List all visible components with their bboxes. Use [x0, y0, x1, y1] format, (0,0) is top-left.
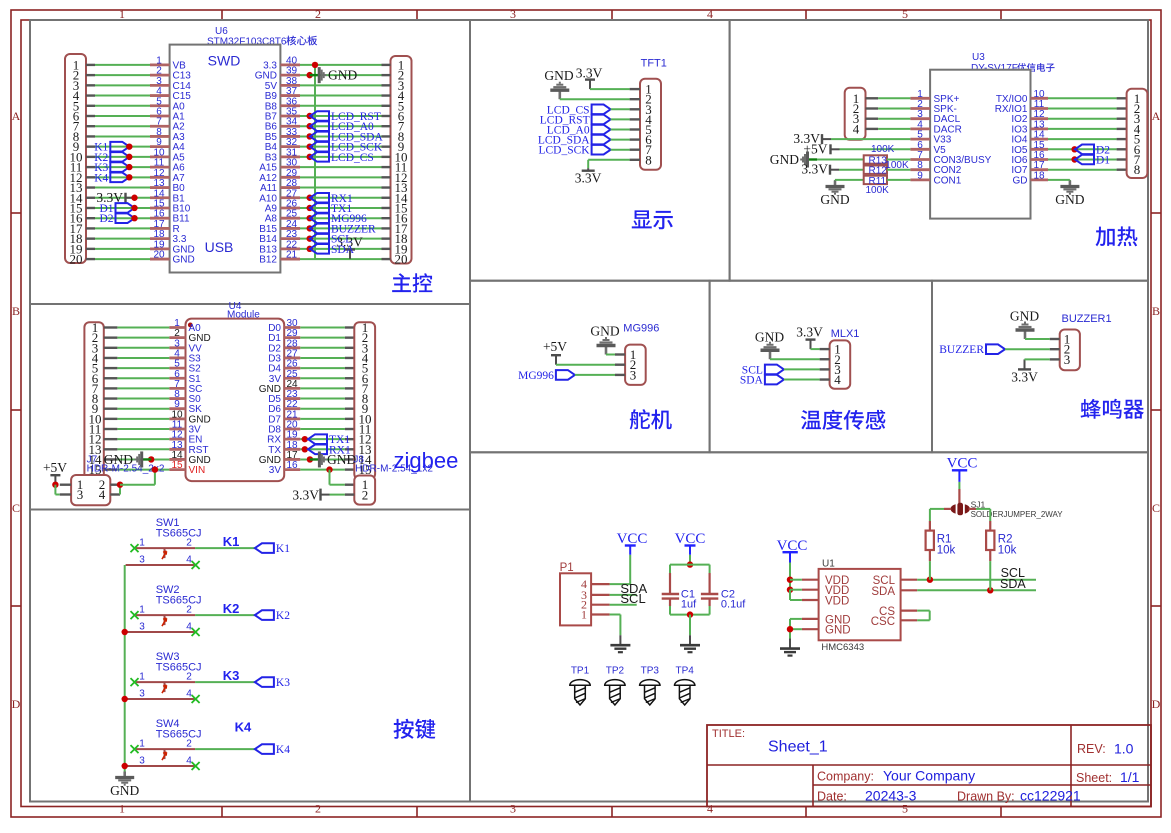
U6 pin 22 (B13) stub + wire [280, 247, 300, 250]
U6 pin 12 (A7) stub + wire [86, 176, 95, 178]
U3 pin 5 (V33) stub [910, 138, 930, 141]
svg-text:MG996: MG996 [623, 323, 659, 335]
wire SW1 pin2 to K1 [195, 547, 255, 549]
U6 pin 14 (B1) stub + wire [86, 197, 95, 199]
net flag LCD_CS [307, 154, 313, 160]
svg-text:1uf: 1uf [681, 599, 697, 611]
wire U3 pin 1 [866, 97, 879, 99]
wire BUZZER1 pin3 [1025, 358, 1050, 360]
wire TFT1 pin 5 [611, 129, 630, 131]
connector header right of U3 [1127, 89, 1148, 178]
net flag D2 at U3 [1071, 146, 1077, 152]
svg-text:1: 1 [139, 538, 145, 549]
svg-text:D1: D1 [1096, 155, 1110, 167]
svg-text:TP4: TP4 [676, 665, 695, 676]
U4 pin 12 (EN) stub + wire [104, 438, 118, 440]
wire TFT1 pin2 [560, 98, 630, 100]
U4 pin 6 (S1) stub + wire [104, 377, 118, 379]
wire SW4 pin2 to K4 [195, 748, 255, 750]
wire U3 pin 16 to header [1048, 159, 1117, 161]
svg-text:K4: K4 [235, 720, 252, 735]
U6 pin 25 (A8) stub + wire [280, 217, 300, 220]
wire TFT1 pin 6 [611, 139, 630, 141]
power flag 3.3V bottom right of U6 [349, 250, 351, 260]
U6 pin 24 (B15) stub + wire [280, 227, 300, 230]
svg-text:4: 4 [834, 372, 841, 387]
TFT1 pin 8 stub [630, 159, 640, 161]
svg-text:1.0: 1.0 [1114, 741, 1134, 757]
svg-text:VDD: VDD [825, 596, 849, 608]
svg-text:4: 4 [853, 121, 860, 136]
wire MLX1 pin2 [770, 358, 820, 360]
TFT1 pin 4 stub [630, 118, 640, 120]
U4 pin 30 (D0) stub + wire [284, 326, 300, 329]
wire U3 pin7 to R13 [817, 159, 864, 161]
svg-text:D: D [1152, 697, 1161, 711]
power flag 3.3V at MLX1 pin1 [810, 340, 812, 350]
svg-text:Sheet_1: Sheet_1 [768, 739, 828, 756]
U4 pin 7 (SC) stub + wire [104, 387, 118, 389]
wire U3 pin 4 [866, 128, 879, 130]
svg-text:P1: P1 [560, 562, 574, 574]
no-connect X marks SW1 [131, 544, 139, 552]
svg-text:1: 1 [139, 605, 145, 616]
svg-text:GND: GND [173, 255, 195, 266]
U3 pin 3 (DACL) stub [910, 117, 930, 120]
power flag 3.3V at U6 pin 14 [126, 197, 135, 199]
net flag K2 at SW2 [255, 610, 274, 620]
U3 pin 12 (IO2) stub [1031, 117, 1049, 120]
svg-text:LCD_SCK: LCD_SCK [538, 145, 590, 157]
border row ticks right [1151, 212, 1161, 214]
svg-text:4: 4 [186, 555, 192, 566]
svg-text:USB: USB [205, 239, 234, 255]
MLX1 pin 3 stub [820, 368, 830, 370]
wire capacitors to ground [670, 614, 710, 616]
U4 pin 26 (D4) stub + wire [284, 367, 300, 370]
net flag SDA at MLX1 [765, 375, 784, 385]
svg-text:TS665CJ: TS665CJ [156, 661, 202, 673]
svg-text:3: 3 [139, 756, 145, 767]
svg-text:SDA: SDA [331, 244, 355, 256]
U6 pin 13 (B0) stub + wire [86, 186, 95, 188]
svg-text:2: 2 [362, 487, 369, 502]
U3 pin 8 (CON2) stub [910, 168, 930, 171]
U4 pin 15 (VIN) stub + wire [104, 468, 118, 470]
net flag K1 at SW1 [255, 543, 274, 553]
net flag K3 at SW3 [255, 677, 274, 687]
wire U3 GD to ground [1048, 179, 1070, 181]
wire MG996 pin3 [575, 374, 615, 376]
resistor R11 100K [864, 176, 887, 184]
svg-text:GND: GND [110, 783, 139, 798]
svg-text:K4: K4 [94, 172, 108, 184]
U3 pin 2 (SPK-) stub [910, 107, 930, 110]
svg-text:3.3V: 3.3V [292, 487, 319, 502]
wire J7 pin2 pin4 to VIN [110, 484, 120, 486]
net flag D2 [116, 213, 135, 223]
ground symbol at U4 pin17 [307, 456, 313, 462]
power flag 3.3V at U3 pin5 V33 [822, 138, 831, 140]
net flag LCD_SCK [307, 143, 313, 149]
svg-text:BUZZER1: BUZZER1 [1062, 313, 1112, 325]
svg-text:GND: GND [327, 452, 356, 467]
U4 pin 17 (GND) stub + wire [284, 458, 300, 461]
svg-text:GND: GND [590, 324, 619, 339]
svg-text:+5V: +5V [43, 460, 67, 475]
svg-text:REV:: REV: [1077, 742, 1106, 756]
connector header left of U6 [65, 54, 86, 263]
U6 pin 28 (A11) stub + wire [280, 186, 300, 189]
TFT1 pin 1 stub [630, 88, 640, 90]
svg-text:TP3: TP3 [641, 665, 660, 676]
svg-text:20243-3: 20243-3 [865, 788, 917, 804]
ground symbol at U4 pin14 [148, 456, 154, 462]
U4 pin 8 (S0) stub + wire [104, 397, 118, 399]
U6 pin 17 (R) stub + wire [86, 227, 95, 229]
MG996 pin 3 stub [615, 374, 625, 376]
svg-text:zigbee: zigbee [394, 448, 459, 473]
svg-text:U6: U6 [215, 26, 228, 37]
U6 pin 33 (B5) stub + wire [280, 135, 300, 138]
ground symbol at MG996 pin1 [605, 346, 608, 355]
svg-text:4: 4 [186, 689, 192, 700]
ground symbol at U3 pin7 [808, 158, 818, 160]
U4 pin 21 (D7) stub + wire [284, 417, 300, 420]
ground symbol at capacitors [689, 635, 691, 645]
U3 pin 17 (IO7) stub [1031, 168, 1049, 171]
connector BUZZER1 [1060, 330, 1080, 371]
wire TFT1 pin 4 [611, 118, 630, 120]
svg-text:TP1: TP1 [571, 665, 590, 676]
svg-text:U1: U1 [822, 559, 835, 570]
svg-text:SDA: SDA [740, 375, 764, 387]
svg-text:1: 1 [139, 672, 145, 683]
section box zigbee [30, 304, 470, 510]
U6 pin 1 (VB) stub + wire [86, 64, 95, 66]
U6 pin 18 (3.3) stub + wire [86, 237, 95, 239]
svg-text:U3: U3 [972, 52, 985, 63]
svg-text:GND: GND [755, 329, 784, 344]
svg-text:SWD: SWD [208, 52, 241, 68]
svg-text:TS665CJ: TS665CJ [156, 527, 202, 539]
wire J7 pin1 pin3 [60, 484, 71, 486]
U6 pin 8 (A3) stub + wire [86, 135, 95, 137]
wire U1 CS to CSC [917, 610, 930, 612]
U6 pin 16 (B11) stub + wire [86, 217, 95, 219]
U4 pin 4 (S3) stub + wire [104, 357, 118, 359]
border column ticks bottom [221, 807, 223, 817]
section box keys [30, 510, 470, 802]
U4 pin 20 (D8) stub + wire [284, 428, 300, 431]
svg-text:GND: GND [825, 625, 851, 637]
net flag RX1 at U6 [307, 195, 313, 201]
power flag 3.3V at U3 pin8 [830, 169, 839, 171]
section box compass [470, 452, 1148, 801]
MG996 pin 2 stub [615, 364, 625, 366]
chip U4 body [186, 319, 285, 482]
wire VCC to capacitors [689, 555, 691, 565]
svg-text:20: 20 [395, 252, 408, 267]
svg-text:D: D [12, 697, 21, 711]
net flag K3 [110, 162, 129, 172]
TFT1 pin 7 stub [630, 148, 640, 150]
net flag SCL at U6 [307, 235, 313, 241]
ground symbol at MLX1 pin2 [769, 350, 772, 359]
U6 pin 6 (A1) stub + wire [86, 115, 95, 117]
U3 pin 13 (IO3) stub [1031, 127, 1049, 130]
wire VCC to U1 VDD [789, 563, 791, 601]
svg-text:GND: GND [1055, 192, 1084, 207]
svg-text:4: 4 [186, 756, 192, 767]
wire SDA net [917, 589, 1036, 591]
svg-text:3.3V: 3.3V [1011, 370, 1038, 385]
net flag LCD_SDA at TFT1 [592, 135, 611, 145]
U3 pin 15 (IO5) stub [1031, 148, 1049, 151]
svg-text:3.3V: 3.3V [796, 324, 823, 339]
wire P1 pin2 [610, 604, 637, 606]
no-connect X marks SW3 [131, 678, 139, 686]
chip U6 body [170, 45, 281, 273]
svg-text:2: 2 [186, 605, 192, 616]
net flag TX1 at U4 RX [302, 436, 308, 442]
connector TFT1 [640, 79, 661, 170]
svg-text:4: 4 [707, 802, 713, 816]
svg-text:5: 5 [902, 802, 908, 816]
wire VCC to P1 pin4 [629, 555, 631, 584]
svg-text:VIN: VIN [189, 465, 206, 476]
svg-text:SDA: SDA [871, 586, 895, 598]
resistor R1 10k [926, 531, 934, 550]
svg-text:3.3V: 3.3V [576, 66, 603, 81]
U6 pin 10 (A5) stub + wire [86, 156, 95, 158]
section box temperature [710, 281, 932, 453]
U3 pin 9 (CON1) stub [910, 178, 930, 181]
svg-text:GND: GND [820, 192, 849, 207]
svg-text:8: 8 [645, 152, 652, 167]
svg-text:TS665CJ: TS665CJ [156, 728, 202, 740]
ground symbol at U3 GD [1069, 181, 1072, 187]
section box main-control [30, 20, 470, 304]
svg-text:2: 2 [186, 538, 192, 549]
U6 pin 19 (GND) stub + wire [86, 248, 95, 250]
wire U4 pin16 3V to J8 pin1 [326, 466, 332, 472]
net flag LCD_CS at TFT1 [592, 105, 611, 115]
MLX1 pin 4 stub [820, 378, 830, 380]
svg-text:2: 2 [186, 739, 192, 750]
U4 pin 10 (GND) stub + wire [104, 418, 118, 420]
svg-text:10k: 10k [937, 545, 956, 557]
svg-text:MLX1: MLX1 [831, 328, 860, 340]
U4 pin 9 (SK) stub + wire [104, 408, 118, 410]
svg-text:21: 21 [286, 250, 298, 261]
wire MG996 pin2 [556, 364, 615, 366]
svg-text:Company:: Company: [817, 770, 874, 784]
section box heating [730, 20, 1148, 281]
U4 pin 16 (3V) stub + wire [284, 468, 300, 471]
svg-text:Your Company: Your Company [883, 768, 975, 784]
svg-text:SOLDERJUMPER_2WAY: SOLDERJUMPER_2WAY [971, 510, 1064, 519]
svg-text:10k: 10k [998, 545, 1017, 557]
wire BUZZER1 pin2 [1005, 348, 1050, 350]
section label keys [394, 719, 436, 739]
U6 pin 40 (3.3) stub + wire [280, 64, 300, 67]
power flag 3.3V at BUZZER1 pin3 [1024, 359, 1026, 369]
U6 pin 5 (A0) stub + wire [86, 105, 95, 107]
svg-text:GND: GND [544, 68, 573, 83]
power flag +5V at MG996 pin2 [555, 355, 557, 365]
U4 pin 29 (D1) stub + wire [284, 336, 300, 339]
capacitor C2 0.1uf [709, 565, 711, 573]
svg-text:TITLE:: TITLE: [712, 728, 745, 740]
U6 pin 11 (A6) stub + wire [86, 166, 95, 168]
U4 pin 27 (D3) stub + wire [284, 357, 300, 360]
svg-text:0.1uf: 0.1uf [721, 599, 746, 611]
svg-text:3: 3 [139, 622, 145, 633]
svg-text:K2: K2 [223, 601, 240, 616]
svg-text:4: 4 [707, 7, 713, 21]
svg-text:100K: 100K [866, 185, 890, 196]
net flag D1 [116, 203, 135, 213]
wire TFT1 pin 3 [611, 108, 630, 110]
svg-text:1/1: 1/1 [1120, 769, 1140, 785]
net flag LCD_SCK at TFT1 [592, 145, 611, 155]
U4 pin 1 (A0) stub + wire [104, 326, 118, 328]
U6 pin 15 (B10) stub + wire [86, 207, 95, 209]
svg-text:1: 1 [139, 739, 145, 750]
capacitor C1 1uf [669, 565, 671, 573]
U6 pin 7 (A2) stub + wire [86, 125, 95, 127]
net flag K1 [110, 142, 129, 152]
wire U3 pin 15 to header [1048, 148, 1117, 150]
TFT1 pin 6 stub [630, 138, 640, 140]
svg-text:K1: K1 [223, 534, 240, 549]
net flag TX1 at U6 [307, 205, 313, 211]
svg-text:Sheet:: Sheet: [1076, 771, 1112, 785]
U6 pin 30 (A15) stub + wire [280, 166, 300, 169]
svg-text:15: 15 [171, 460, 183, 471]
wire U3 pin 13 to header [1048, 128, 1117, 130]
svg-text:2: 2 [186, 672, 192, 683]
wire U3 pin6 [840, 148, 911, 150]
svg-text:3: 3 [510, 802, 516, 816]
ground symbol at TFT1 pin2 [558, 90, 561, 99]
U3 pin 11 (RX/IO1) stub [1031, 107, 1049, 110]
wire VCC to SJ1 [958, 482, 960, 489]
svg-text:MG996: MG996 [518, 370, 554, 382]
BUZZER1 pin 3 stub [1050, 358, 1060, 360]
wire P1 pin3 [610, 594, 637, 596]
svg-text:GD: GD [1013, 175, 1028, 186]
wire SJ1 to R1 [944, 508, 951, 510]
U4 pin 28 (D2) stub + wire [284, 346, 300, 349]
TFT1 pin 3 stub [630, 108, 640, 110]
wire TFT1 pin1 [590, 88, 630, 90]
section label main-control [392, 273, 432, 292]
U4 pin 18 (TX) stub + wire [284, 448, 300, 451]
svg-text:3: 3 [510, 7, 516, 21]
junction dots K1-K4 [126, 143, 132, 149]
svg-text:C: C [1152, 501, 1160, 515]
svg-text:K3: K3 [223, 668, 240, 683]
connector header left of U4 [84, 322, 103, 479]
U6 pin 36 (B8) stub + wire [280, 104, 300, 107]
svg-text:+5V: +5V [543, 339, 567, 354]
resistor R12 100K [864, 166, 887, 174]
wire U3 pin5 [831, 138, 910, 140]
svg-text:GND: GND [1010, 309, 1039, 324]
U4 pin 5 (S2) stub + wire [104, 367, 118, 369]
svg-text:D2: D2 [99, 213, 113, 225]
MLX1 pin 1 stub [820, 348, 830, 350]
BUZZER1 pin 2 stub [1050, 348, 1060, 350]
wire U3 pin9 to R11 and GND [835, 179, 864, 181]
svg-text:GND: GND [104, 452, 133, 467]
net flag MG996 [556, 370, 575, 380]
svg-text:Drawn By:: Drawn By: [957, 790, 1015, 804]
svg-text:2: 2 [315, 7, 321, 21]
net flag K2 [110, 152, 129, 162]
svg-text:A: A [12, 109, 21, 123]
U6 pin 9 (A4) stub + wire [86, 145, 95, 147]
net flag D1 at U3 [1071, 156, 1077, 162]
wire P1 pin1 to ground [610, 614, 621, 616]
svg-text:K3: K3 [276, 677, 290, 689]
svg-text:TS665CJ: TS665CJ [156, 594, 202, 606]
svg-text:2: 2 [315, 802, 321, 816]
svg-text:3: 3 [1064, 352, 1071, 367]
net flag LCD_RST [307, 113, 313, 119]
wire SJ1 to R2 [969, 508, 976, 510]
svg-text:K1: K1 [276, 543, 290, 555]
wire U3 pin 11 to header [1048, 108, 1117, 110]
U4 pin 11 (3V) stub + wire [104, 428, 118, 430]
TFT1 pin 2 stub [630, 98, 640, 100]
wire TFT1 pin 7 [611, 149, 630, 151]
U3 pin 7 (CON3/BUSY) stub [910, 158, 930, 161]
net flag LCD_RST at TFT1 [592, 115, 611, 125]
resistor R2 10k [986, 531, 994, 550]
section box buzzer [932, 281, 1148, 453]
power flag 3.3V at TFT1 pin1 [589, 80, 591, 90]
svg-text:BUZZER: BUZZER [939, 344, 984, 356]
TFT1 pin 5 stub [630, 128, 640, 130]
svg-text:K4: K4 [276, 744, 290, 756]
section label servo [630, 409, 672, 429]
net flag LCD_A0 [307, 123, 313, 129]
no-connect X marks SW2 [131, 611, 139, 619]
U4 pin 13 (RST) stub + wire [104, 448, 118, 450]
U3 pin 1 (SPK+) stub [910, 97, 930, 100]
svg-text:CSC: CSC [871, 616, 895, 628]
net flag K4 at SW4 [255, 744, 274, 754]
wire U3 pin 2 [866, 107, 879, 109]
net flag MG996 at U6 [307, 215, 313, 221]
U4 pin 22 (D6) stub + wire [284, 407, 300, 410]
wire TFT1 pin8 [588, 159, 629, 161]
connector header right of U6 [391, 56, 412, 264]
resistor R13 100K [864, 155, 887, 163]
U6 pin 32 (B4) stub + wire [280, 145, 300, 148]
U4 pin 23 (D5) stub + wire [284, 397, 300, 400]
svg-text:1: 1 [581, 608, 587, 622]
svg-text:SDA: SDA [1000, 577, 1026, 591]
ground symbol at P1 [619, 635, 621, 645]
U6 pin 2 (C13) stub + wire [86, 74, 95, 76]
svg-text:GND: GND [328, 68, 357, 83]
svg-text:1: 1 [119, 802, 125, 816]
U6 pin 39 (GND) stub + wire [280, 74, 300, 77]
